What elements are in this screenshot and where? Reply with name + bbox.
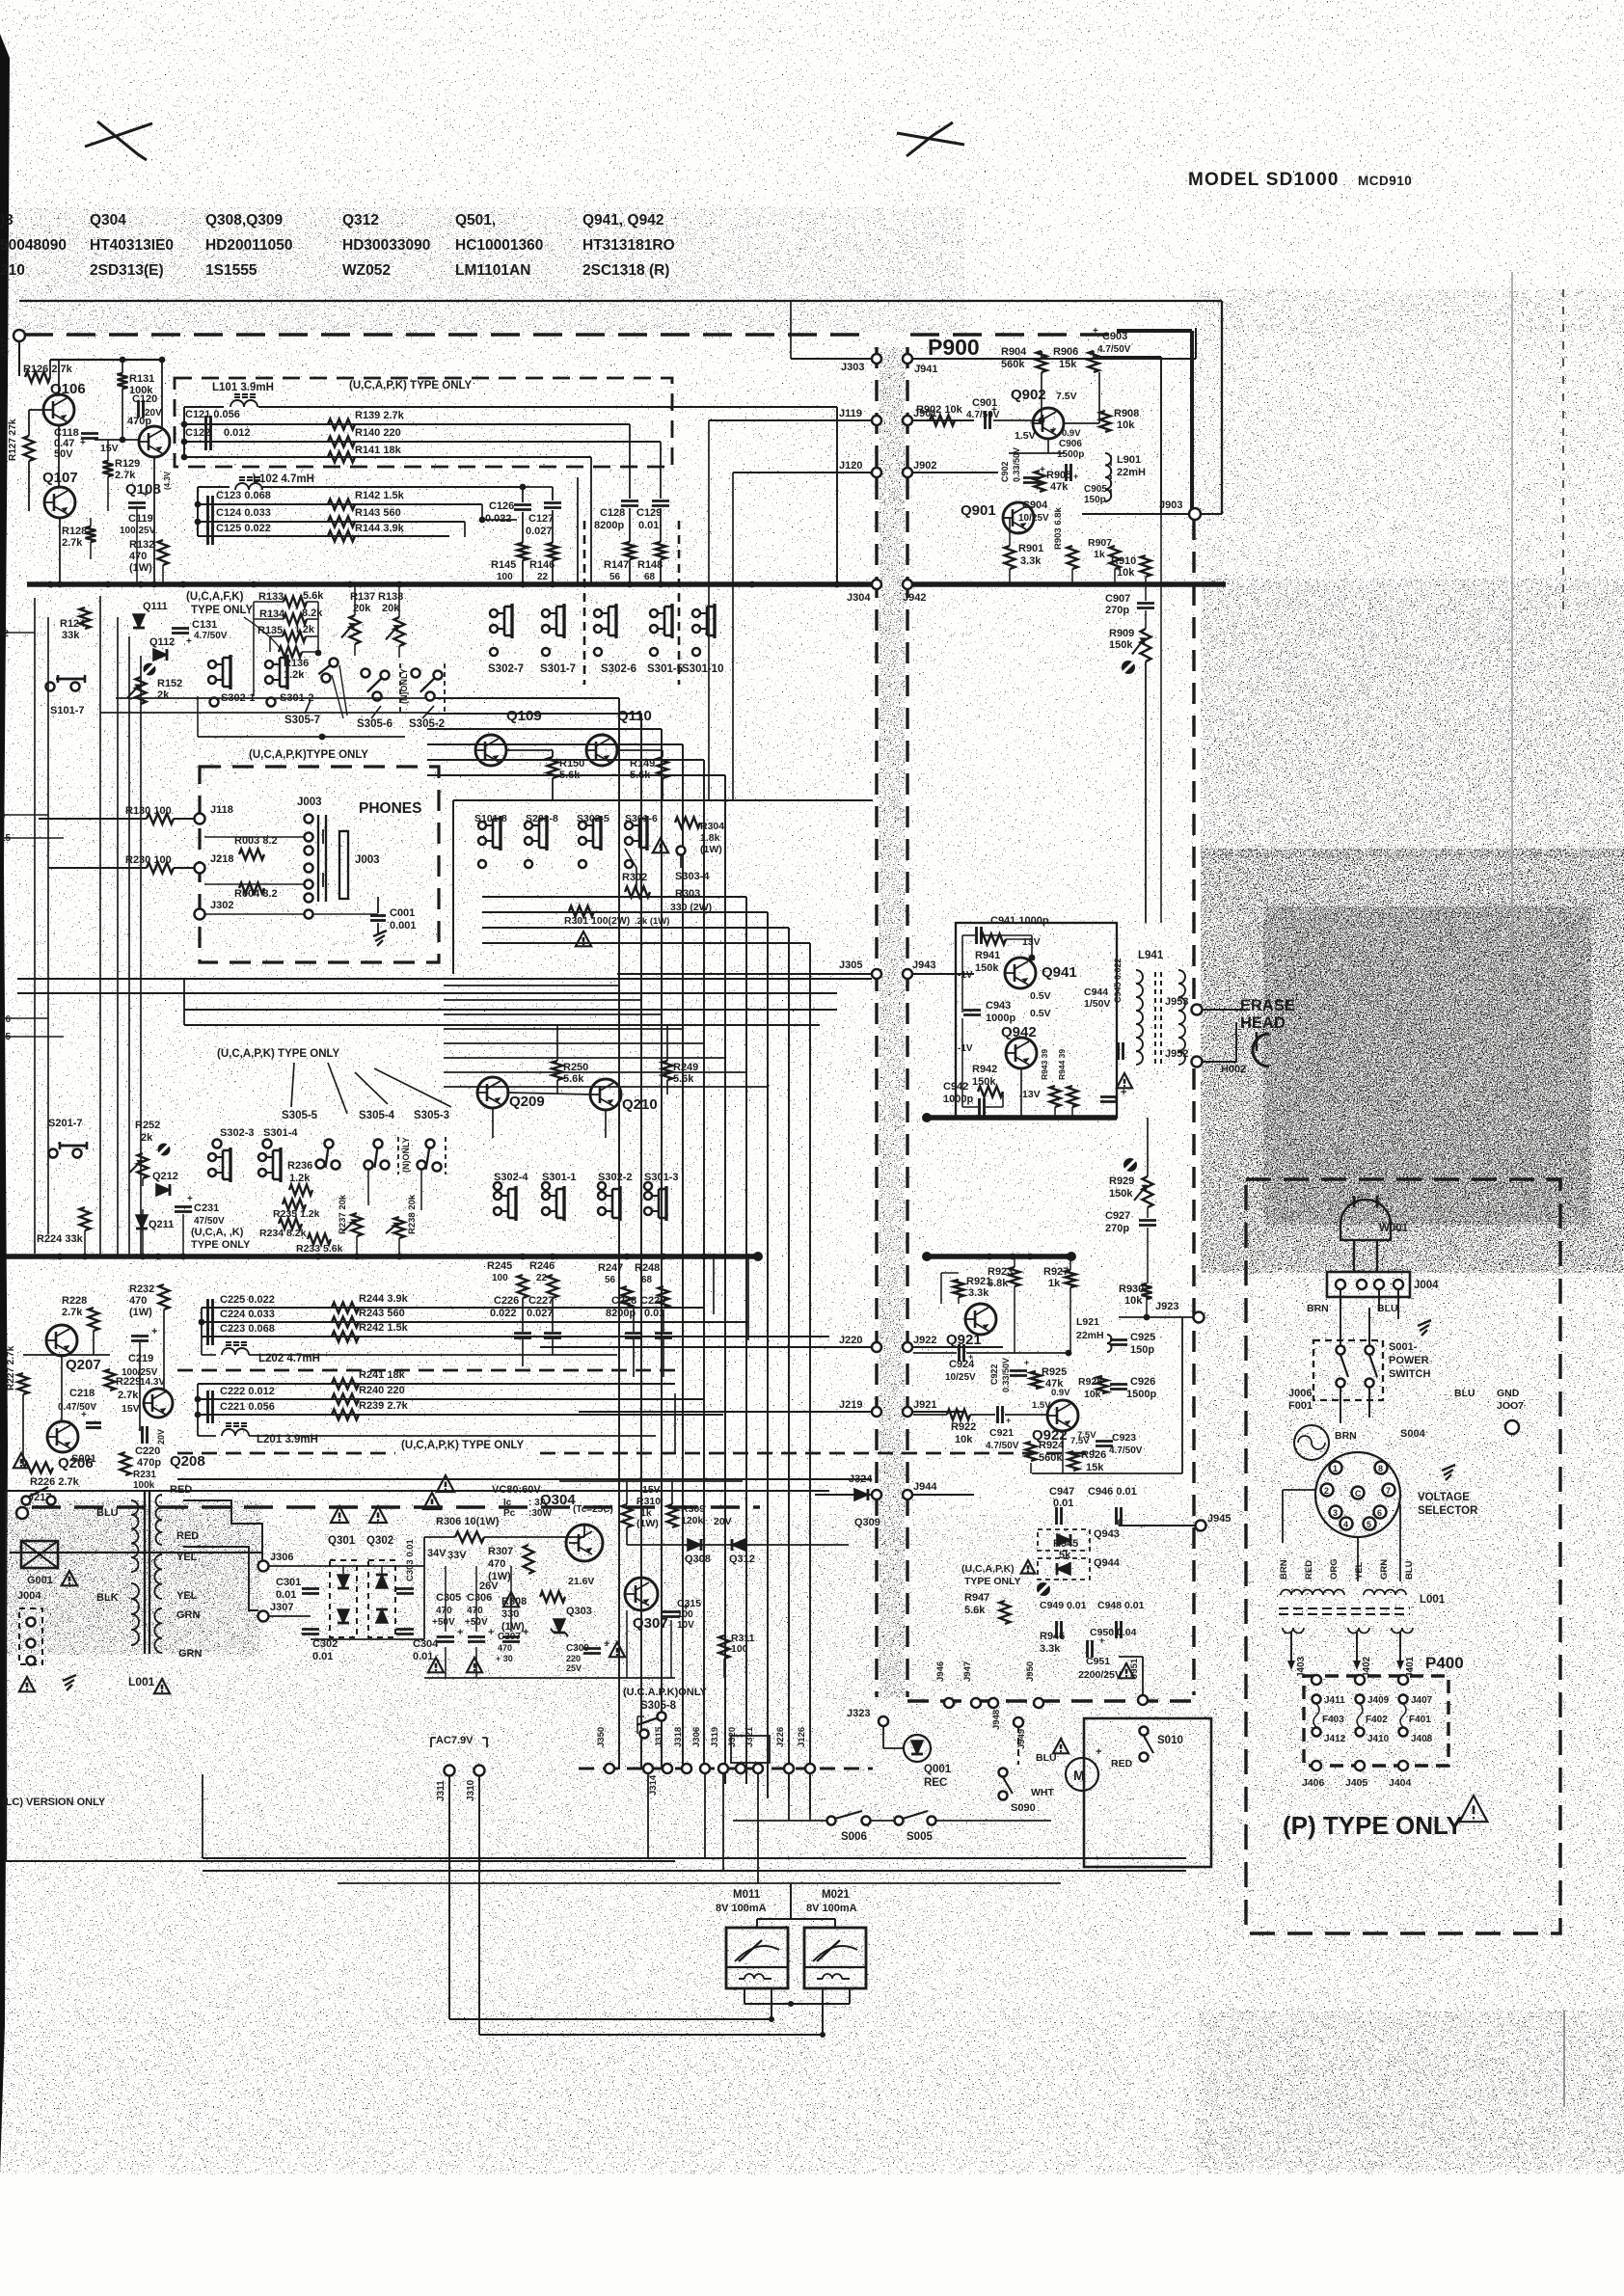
svg-text:5k: 5k: [1059, 1550, 1071, 1561]
svg-text:Q308,Q309: Q308,Q309: [205, 212, 284, 229]
svg-text:J220: J220: [839, 1335, 862, 1346]
svg-text:R232: R232: [129, 1283, 154, 1295]
svg-text:25V: 25V: [566, 1663, 582, 1673]
wire EQ1 row7 corner: [464, 522, 466, 537]
svg-text:270p: 270p: [1105, 1223, 1129, 1234]
heavy rail P900 13V: [927, 1115, 1117, 1121]
svg-text:C127: C127: [528, 513, 554, 525]
svg-text:50048090: 50048090: [0, 237, 67, 254]
wire J305 row: [617, 973, 872, 975]
resistor R922: [947, 1410, 970, 1420]
svg-text:HEAD: HEAD: [1240, 1014, 1286, 1032]
wire EQ1 row1: [184, 406, 224, 408]
page noise top band: [0, 0, 1624, 333]
svg-text:270p: 270p: [1105, 605, 1129, 616]
wire R237 to bus: [356, 1236, 358, 1256]
resistor R128: [86, 527, 96, 542]
wire bundle mid verticals: [618, 698, 620, 1769]
page noise mid sparse: [0, 333, 1196, 1514]
capacitor C119: [128, 501, 146, 504]
heavy bus A right segment: [907, 581, 1226, 587]
svg-text:Q107: Q107: [42, 470, 78, 486]
page noise right column lower: [1196, 1273, 1624, 2170]
svg-text:S010: S010: [1157, 1735, 1183, 1746]
svg-text:2SC1318 (R): 2SC1318 (R): [582, 262, 669, 279]
svg-text:C227: C227: [528, 1295, 554, 1307]
resistor R226: [24, 1463, 53, 1473]
svg-text:5.6k: 5.6k: [303, 590, 324, 602]
svg-text:+: +: [143, 490, 149, 500]
corridor dashed right: [906, 347, 908, 1697]
svg-text:S101-8: S101-8: [474, 813, 507, 824]
svg-text:YEL: YEL: [1354, 1561, 1365, 1580]
svg-text:(1W): (1W): [129, 1307, 152, 1318]
svg-text:F402: F402: [1366, 1715, 1388, 1725]
node J314: [643, 1764, 653, 1773]
svg-text:6.8k: 6.8k: [988, 1278, 1009, 1289]
svg-text:2SD313(E): 2SD313(E): [90, 262, 164, 279]
svg-text:560k: 560k: [1039, 1452, 1063, 1464]
switch S006: [827, 1817, 836, 1825]
svg-text:R310: R310: [636, 1496, 661, 1507]
svg-text:J407: J407: [1411, 1695, 1433, 1706]
svg-text:56: 56: [605, 1275, 616, 1285]
wire bridge rails: [318, 1565, 424, 1567]
switch blades bank2 row: [332, 1161, 340, 1170]
EQ1 verticals right: [836, 407, 838, 584]
svg-text:3.3k: 3.3k: [1020, 555, 1042, 567]
svg-text:C225 0.022: C225 0.022: [220, 1294, 275, 1306]
svg-text:10k: 10k: [955, 1434, 973, 1445]
resistor R925: [1031, 1371, 1042, 1389]
wire to J923: [1119, 1316, 1194, 1318]
svg-text:HT40313IE0: HT40313IE0: [90, 237, 174, 254]
svg-text:M011: M011: [733, 1889, 761, 1901]
svg-text:MODEL SD1000: MODEL SD1000: [1188, 170, 1340, 190]
warning triangles caps: [428, 1658, 444, 1672]
svg-text:+: +: [1093, 326, 1098, 337]
node J302: [195, 909, 205, 920]
svg-text:+: +: [1024, 1358, 1029, 1367]
svg-text:L001: L001: [128, 1675, 155, 1688]
svg-text:100k: 100k: [133, 1480, 155, 1491]
svg-text:C228: C228: [611, 1295, 636, 1307]
svg-text:(4.3V: (4.3V: [163, 471, 172, 490]
transistor Q206: [47, 1421, 78, 1452]
svg-text:56: 56: [609, 572, 621, 582]
wire Q109-Q110 links: [506, 749, 553, 751]
diode Q944 dashed: [1038, 1558, 1090, 1580]
svg-text:RED: RED: [170, 1484, 192, 1496]
svg-text:C129: C129: [636, 507, 662, 519]
svg-text:(1W): (1W): [129, 562, 152, 574]
screw R945: [1037, 1582, 1050, 1596]
svg-text:Q304: Q304: [90, 212, 126, 229]
node J126: [805, 1764, 815, 1773]
svg-text:47/50V: 47/50V: [194, 1216, 225, 1227]
wire C128 up: [629, 424, 631, 499]
main board dashed bottom border: [32, 1505, 760, 1509]
svg-text:C125 0.022: C125 0.022: [216, 523, 271, 534]
page right edge dashed: [1562, 289, 1564, 617]
svg-text:F401: F401: [1409, 1715, 1431, 1725]
page fold line right: [1511, 272, 1513, 1119]
dashed drop to S090: [1017, 1726, 1019, 1765]
svg-text:J314: J314: [648, 1774, 659, 1796]
svg-text:S305-4: S305-4: [359, 1110, 395, 1121]
selector pins: [1330, 1462, 1342, 1474]
svg-text:0.022: 0.022: [490, 1308, 517, 1319]
svg-text:Q207: Q207: [66, 1357, 101, 1373]
EQ1 dashed box upper: [175, 378, 672, 467]
svg-text:26V: 26V: [479, 1580, 499, 1592]
wire EQ1 row3: [184, 441, 661, 443]
svg-text:15V: 15V: [100, 443, 119, 454]
warning near motor: [1053, 1739, 1069, 1753]
svg-text:14.3V: 14.3V: [140, 1377, 165, 1388]
wire lower-left links: [93, 1331, 95, 1355]
L941 core: [1154, 972, 1156, 1065]
resistor R131: [118, 373, 128, 389]
connector pair J324 J944: [872, 1490, 881, 1499]
svg-text:J950: J950: [1025, 1661, 1036, 1682]
svg-text:S301-4: S301-4: [263, 1127, 298, 1139]
svg-text:C222 0.012: C222 0.012: [220, 1386, 275, 1397]
primary winding row 2: [1364, 1590, 1406, 1595]
svg-text:2.7k: 2.7k: [62, 537, 83, 549]
svg-text:J003: J003: [355, 854, 380, 866]
svg-text:Q501,: Q501,: [455, 212, 496, 229]
fuse chain F401: [1398, 1675, 1408, 1685]
fuse chain F402: [1355, 1675, 1365, 1685]
svg-text:0.022: 0.022: [485, 513, 512, 525]
svg-text:(1W): (1W): [700, 844, 722, 855]
wire bottom run 2: [479, 2034, 823, 2036]
svg-text:5.6k: 5.6k: [563, 1073, 584, 1085]
wire Q108 collector: [161, 360, 163, 428]
wire staircase mid connectors: [482, 896, 746, 898]
transistor Q107: [44, 487, 75, 518]
switch S005: [895, 1817, 904, 1825]
svg-text:+: +: [1091, 1446, 1096, 1456]
node J218: [195, 863, 205, 874]
svg-text:R226 2.7k: R226 2.7k: [30, 1476, 80, 1488]
svg-text:R248: R248: [635, 1262, 660, 1274]
svg-text:Q308: Q308: [685, 1553, 711, 1565]
wire EQ1 row7: [198, 521, 465, 523]
capacitor C315: [663, 1610, 680, 1613]
svg-text:4.7/50V: 4.7/50V: [1109, 1445, 1143, 1456]
svg-text:L901: L901: [1117, 454, 1141, 466]
P400 dashed box: [1304, 1676, 1448, 1766]
switch S305-8: [640, 1730, 649, 1739]
svg-text:Q901: Q901: [961, 502, 996, 519]
transformer secondary RED: [156, 1495, 162, 1545]
resistor R924: [1026, 1442, 1037, 1461]
svg-text:150k: 150k: [975, 962, 999, 974]
transistor Q207: [46, 1325, 77, 1356]
svg-text:R133: R133: [258, 591, 284, 603]
svg-text:S201-8: S201-8: [526, 813, 558, 824]
svg-text:2k: 2k: [157, 689, 170, 701]
svg-text:BLU: BLU: [1454, 1388, 1475, 1399]
wire stair fan lower: [444, 985, 619, 986]
svg-text:-1V: -1V: [958, 970, 973, 981]
svg-text:330 (2W): 330 (2W): [670, 902, 712, 913]
svg-text:R239 2.7k: R239 2.7k: [359, 1400, 409, 1412]
svg-text:4.7/50V: 4.7/50V: [1097, 344, 1131, 355]
wire rows upper mid extended: [116, 697, 427, 699]
svg-text:R901: R901: [1018, 543, 1043, 554]
svg-text:YEL: YEL: [176, 1590, 198, 1602]
svg-text:Q944: Q944: [1094, 1557, 1121, 1569]
svg-text:C121 0.056: C121 0.056: [185, 409, 240, 420]
svg-text:R242 1.5k: R242 1.5k: [359, 1322, 409, 1334]
svg-text:Q942: Q942: [1001, 1024, 1037, 1040]
svg-text:68: 68: [641, 1275, 653, 1285]
svg-text:S305-3: S305-3: [414, 1110, 449, 1121]
node S303-4: [677, 847, 686, 855]
svg-text:1k: 1k: [1048, 1278, 1061, 1289]
jack arrows: [322, 829, 324, 844]
contacts above pots: [365, 1161, 373, 1170]
wire EQ1 row4: [184, 456, 591, 458]
node J117: [14, 330, 25, 341]
switch S301-4 unit: [263, 1140, 272, 1148]
svg-text:0.01: 0.01: [312, 1651, 333, 1662]
svg-text:S305-6: S305-6: [357, 718, 392, 730]
svg-text:C950 0.04: C950 0.04: [1090, 1627, 1137, 1638]
svg-text:S301-7: S301-7: [540, 663, 576, 675]
transformer core right: [1279, 1607, 1410, 1609]
svg-text:J412: J412: [1324, 1734, 1346, 1744]
wires power section: [424, 1536, 455, 1538]
screw R909: [1122, 661, 1135, 674]
svg-text:10k: 10k: [1124, 1295, 1143, 1307]
voltage selector body: [1315, 1452, 1400, 1537]
svg-text:R150: R150: [559, 758, 584, 770]
switch S301-2: [265, 661, 273, 668]
svg-text:Q110: Q110: [617, 708, 652, 724]
svg-text:(U,C,A,P,K) TYPE ONLY: (U,C,A,P,K) TYPE ONLY: [349, 380, 472, 392]
svg-text:-1V: -1V: [958, 1043, 973, 1054]
svg-text:J404: J404: [1389, 1777, 1412, 1789]
switch S010: [1140, 1727, 1149, 1736]
svg-text:R304: R304: [700, 821, 724, 832]
svg-text:C128: C128: [600, 507, 625, 519]
page noise right column light: [1191, 289, 1624, 579]
svg-text:S302-7: S302-7: [488, 663, 524, 675]
svg-text:C229: C229: [640, 1295, 665, 1307]
resistor R231b: [121, 1452, 131, 1475]
wire J220 row: [540, 1346, 872, 1348]
svg-text:1.2k: 1.2k: [289, 1173, 311, 1184]
capacitor C219: [131, 1335, 149, 1337]
svg-text:R252: R252: [135, 1120, 160, 1131]
svg-text:GND: GND: [1497, 1388, 1520, 1399]
svg-text:VOLTAGE: VOLTAGE: [1418, 1492, 1470, 1503]
svg-text:C906: C906: [1059, 439, 1082, 449]
node J118: [195, 814, 205, 824]
svg-text:1500p: 1500p: [1057, 449, 1084, 460]
switch S302-3 unit: [213, 1140, 222, 1148]
svg-text:1/50V: 1/50V: [1084, 998, 1110, 1010]
wire long horizontal y1546: [6, 1490, 829, 1492]
svg-text:R944 39: R944 39: [1057, 1049, 1067, 1080]
svg-text:BLU: BLU: [96, 1507, 119, 1519]
wire P900 right vertical from top rail: [1221, 301, 1223, 514]
svg-text:150k: 150k: [1109, 1188, 1133, 1200]
svg-text:GRN: GRN: [178, 1648, 203, 1660]
wire eq2 cap columns: [522, 1298, 524, 1332]
left stubs horizontals: [0, 632, 35, 634]
svg-text:150k: 150k: [972, 1076, 996, 1088]
svg-text:J321: J321: [744, 1726, 755, 1747]
wire C126 column: [522, 487, 524, 502]
svg-text:(Tc=25C): (Tc=25C): [573, 1504, 613, 1515]
svg-text:J004: J004: [1414, 1280, 1439, 1291]
svg-text:C119: C119: [128, 513, 153, 525]
resistor R129: [103, 461, 114, 476]
svg-text:J311: J311: [436, 1780, 447, 1801]
svg-text:RED: RED: [1111, 1758, 1133, 1769]
svg-text:J948: J948: [991, 1710, 1002, 1730]
svg-text:+50V: +50V: [432, 1617, 455, 1628]
svg-text:R929: R929: [1109, 1175, 1134, 1187]
node J321: [753, 1764, 763, 1773]
svg-text:J218: J218: [210, 853, 233, 865]
svg-text:J405: J405: [1345, 1777, 1368, 1789]
node J306: [258, 1561, 269, 1572]
bus A junction dots: [47, 581, 54, 588]
svg-text:1.8k: 1.8k: [700, 832, 720, 844]
svg-text:C303 0.01: C303 0.01: [405, 1538, 416, 1581]
node J945: [1196, 1521, 1206, 1531]
svg-text:R148: R148: [637, 559, 663, 571]
inductor L202: [222, 1348, 249, 1355]
svg-text:C123 0.068: C123 0.068: [216, 490, 271, 501]
svg-text:ORG: ORG: [1329, 1558, 1340, 1580]
svg-text:16: 16: [0, 1014, 12, 1025]
svg-text:R233 5.6k: R233 5.6k: [296, 1243, 343, 1255]
svg-text:C927: C927: [1105, 1210, 1130, 1222]
svg-text:C944: C944: [1084, 986, 1108, 998]
svg-text:Q943: Q943: [1094, 1528, 1120, 1540]
wire top horizontal rail: [19, 300, 1222, 302]
resistor R235: [283, 1200, 306, 1210]
svg-text:J943: J943: [912, 959, 935, 971]
wire EQ2 row3: [202, 1336, 829, 1337]
lone contact S301-2: [267, 698, 276, 707]
svg-text:2k: 2k: [141, 1132, 153, 1144]
svg-text:4: 4: [1343, 1520, 1348, 1529]
svg-text:R307: R307: [488, 1546, 513, 1557]
svg-text:Ic: Ic: [503, 1498, 512, 1508]
wire J903 links: [1105, 513, 1189, 515]
svg-text:ERASE: ERASE: [1240, 997, 1295, 1014]
resistor R146: [548, 543, 558, 560]
selector wires to winding: [1283, 1489, 1315, 1491]
capacitor C921: [996, 1406, 999, 1423]
svg-text:S090: S090: [1011, 1802, 1036, 1814]
transistor Q941: [1005, 958, 1036, 988]
svg-text:J410: J410: [1367, 1734, 1390, 1744]
long wires above meters: [203, 1857, 1186, 1859]
resistor R147: [625, 542, 636, 559]
wire J921 row inner: [913, 1414, 947, 1416]
svg-text:S001: S001: [71, 1453, 96, 1465]
svg-text:REC: REC: [924, 1777, 947, 1789]
svg-text:HD20011050: HD20011050: [205, 237, 293, 254]
PHONES dashed box: [200, 767, 439, 962]
resistor R150: [548, 757, 558, 778]
svg-text:S305-2: S305-2: [409, 718, 445, 730]
capacitor C926: [1110, 1383, 1127, 1386]
svg-text:J219: J219: [839, 1399, 862, 1411]
meter M021: [804, 1928, 866, 1988]
svg-text:S101-7: S101-7: [50, 705, 84, 716]
svg-text:C131: C131: [192, 619, 217, 631]
svg-text:Q208: Q208: [170, 1453, 205, 1470]
svg-text:C907: C907: [1105, 593, 1130, 605]
svg-text:150p: 150p: [1130, 1344, 1154, 1356]
svg-text:R131: R131: [129, 373, 154, 385]
svg-text:TYPE ONLY: TYPE ONLY: [964, 1576, 1021, 1587]
svg-text:Q212: Q212: [152, 1171, 178, 1182]
svg-text:Q941, Q942: Q941, Q942: [582, 212, 663, 229]
svg-text:10k: 10k: [1117, 567, 1135, 579]
switch S001 mech: [22, 1497, 31, 1505]
svg-text:1500p: 1500p: [1126, 1389, 1156, 1400]
svg-text:Q312: Q312: [729, 1553, 755, 1565]
connector pair J305 J943: [872, 969, 881, 979]
svg-text:20k: 20k: [353, 603, 371, 614]
svg-text:J903: J903: [1159, 500, 1182, 511]
transistor Q208b: [143, 1389, 173, 1418]
dashed vertical x704: [678, 521, 681, 685]
svg-text:J921: J921: [913, 1399, 936, 1411]
wire C127 column: [552, 487, 554, 500]
wire EQ1 row2: [184, 423, 630, 425]
plug W001: [1340, 1200, 1391, 1240]
resistor R149: [658, 757, 668, 778]
switch S301-7: [542, 609, 550, 617]
wire EQ2 row2: [202, 1321, 748, 1323]
svg-text:R145: R145: [491, 559, 516, 571]
svg-text:120k: 120k: [681, 1515, 704, 1526]
transformer secondary GRN: [154, 1608, 162, 1653]
scanner black left edge strip: [0, 34, 10, 2174]
wires J004 to switch: [1340, 1289, 1341, 1348]
heavy bus A left segment: [27, 581, 876, 587]
resistor R301: [569, 906, 594, 917]
LED Q001 REC: [904, 1735, 931, 1762]
svg-text:Q312: Q312: [342, 212, 379, 229]
svg-text:R134: R134: [259, 608, 285, 620]
meter bottom wires: [744, 1988, 745, 2004]
svg-text:(U,C,A, ,K): (U,C,A, ,K): [191, 1227, 244, 1238]
svg-text:HT313181RO: HT313181RO: [582, 237, 675, 254]
svg-text:Q210: Q210: [622, 1096, 658, 1113]
wire EQ1 row6 corner: [481, 504, 483, 520]
svg-text:1000p: 1000p: [986, 1013, 1015, 1024]
svg-text:L101 3.9mH: L101 3.9mH: [212, 382, 274, 393]
svg-text:R309: R309: [681, 1503, 705, 1515]
bus B right dots: [987, 1254, 993, 1260]
svg-text:Q001: Q001: [924, 1764, 952, 1775]
svg-text:10k: 10k: [1117, 419, 1135, 431]
svg-text:2200/25V: 2200/25V: [1078, 1669, 1122, 1681]
